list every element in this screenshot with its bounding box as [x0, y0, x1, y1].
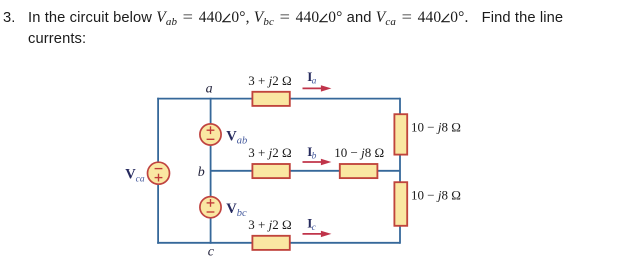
svg-text:Ib: Ib [307, 144, 316, 162]
current arrow Ia [303, 85, 332, 91]
svg-text:Vab: Vab [226, 129, 247, 147]
node label b [198, 165, 205, 180]
resistor 3+j2 on line c [252, 236, 289, 250]
node label c [208, 245, 215, 260]
problem statement text [0, 7, 620, 9]
impedance label 10-j8 line b [334, 145, 384, 160]
svg-text:3 + j2 Ω: 3 + j2 Ω [248, 217, 291, 232]
svg-text:3 + j2 Ω: 3 + j2 Ω [248, 73, 291, 88]
resistor 10-j8 on line b [340, 164, 378, 178]
wire: right vertical branch with load resistors [399, 98, 401, 244]
impedance label 3+j2 line c [248, 217, 291, 232]
svg-text:Ic: Ic [307, 215, 316, 233]
svg-text:10 − j8 Ω: 10 − j8 Ω [411, 120, 461, 135]
resistor 10-j8 right branch upper [394, 114, 407, 154]
current label Ia [307, 69, 316, 87]
impedance label 3+j2 line b [248, 145, 291, 160]
current label Ic [307, 215, 316, 233]
wire: bottom line c [157, 242, 400, 244]
resistor 3+j2 on line b [252, 164, 289, 178]
svg-text:10 − j8 Ω: 10 − j8 Ω [334, 145, 384, 160]
source Vca (- top, + bottom) [148, 162, 170, 184]
resistor 3+j2 on line a [252, 92, 289, 106]
source Vbc (+ top, - bottom) [200, 197, 221, 218]
wire: middle vertical branch a-b-c through Vab and Vbc [210, 98, 212, 244]
label Vbc [226, 201, 247, 219]
label Vca [125, 167, 145, 185]
current arrow Ib [303, 159, 332, 165]
svg-text:3 + j2 Ω: 3 + j2 Ω [248, 145, 291, 160]
svg-text:Vca: Vca [125, 167, 145, 185]
wire: top line a from left corner to right corner [157, 98, 400, 100]
resistor 10-j8 right branch lower [394, 182, 407, 226]
impedance label 3+j2 line a [248, 73, 291, 88]
svg-text:Vbc: Vbc [226, 201, 247, 219]
current label Ib [307, 144, 316, 162]
source Vab (+ top, - bottom) [200, 124, 221, 145]
node label a [206, 82, 213, 97]
svg-text:Ia: Ia [307, 69, 316, 87]
label Vab [226, 129, 247, 147]
impedance label 10-j8 right lower [411, 187, 461, 202]
wire: middle line b from node b to right vertical [211, 170, 400, 172]
wire: left vertical branch with Vca [157, 98, 159, 244]
svg-text:b: b [198, 165, 205, 180]
current arrow Ic [303, 231, 332, 237]
svg-text:a: a [206, 82, 213, 97]
impedance label 10-j8 right upper [411, 120, 461, 135]
svg-text:c: c [208, 245, 215, 260]
svg-text:10 − j8 Ω: 10 − j8 Ω [411, 187, 461, 202]
